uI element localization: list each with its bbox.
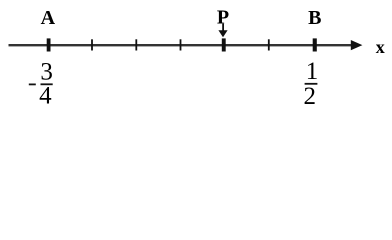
svg-text:3: 3 (40, 58, 53, 85)
svg-text:P: P (217, 7, 229, 29)
svg-text:B: B (308, 7, 321, 29)
svg-text:2: 2 (303, 83, 316, 107)
svg-text:1: 1 (306, 58, 319, 85)
svg-text:A: A (41, 7, 56, 29)
svg-text:4: 4 (39, 83, 52, 108)
svg-text:x: x (376, 37, 385, 57)
